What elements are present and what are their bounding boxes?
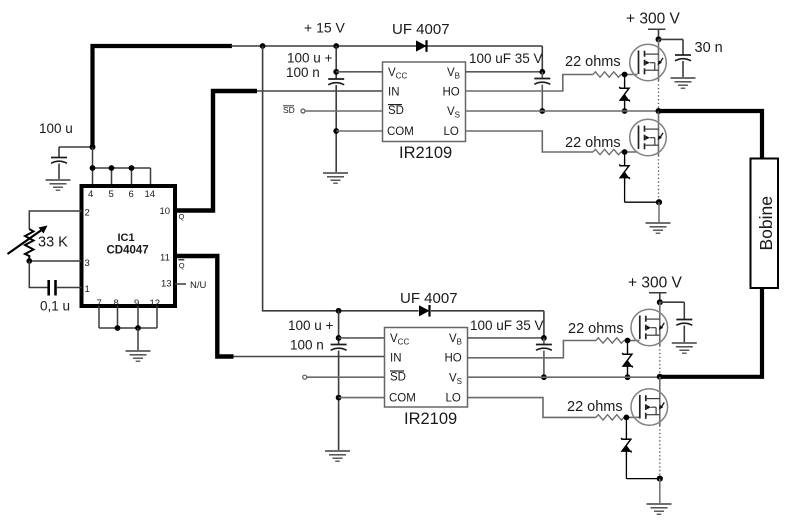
svg-text:UF 4007: UF 4007 bbox=[400, 290, 458, 307]
node: bootstrap Vs junction bottom bbox=[541, 374, 547, 380]
wire: drain Q3 bbox=[659, 302, 661, 345]
ground: bottom driver decoupling bbox=[325, 451, 350, 461]
svg-text:Q: Q bbox=[179, 212, 185, 221]
wire: IN pin line bbox=[257, 90, 382, 92]
svg-text:IN: IN bbox=[390, 353, 402, 365]
coil L1 Bobine box bbox=[751, 159, 779, 289]
svg-text:0,1 u: 0,1 u bbox=[40, 299, 70, 314]
potentiometer arrow bbox=[8, 229, 44, 254]
svg-text:CD4047: CD4047 bbox=[107, 245, 149, 257]
svg-text:N/U: N/U bbox=[190, 280, 207, 291]
svg-text:22 ohms: 22 ohms bbox=[565, 135, 621, 151]
wire: pin4 vertical from node to IC bbox=[92, 147, 94, 184]
resistor R5 22 ohms bbox=[596, 415, 624, 420]
wire: Vcc branch vertical bbox=[335, 46, 337, 79]
svg-text:COM: COM bbox=[387, 126, 414, 138]
wire: down to 0.1u cap bbox=[29, 261, 47, 288]
wire: Q output pin10 to top driver IN bbox=[175, 91, 257, 211]
transistor Q2 MOSFET bbox=[630, 119, 667, 156]
wire: IN pin line bottom bbox=[234, 356, 385, 358]
wire: Vb pin line bbox=[466, 71, 543, 73]
svg-text:IR2109: IR2109 bbox=[404, 410, 457, 428]
capacitor C2 0.1u bbox=[47, 280, 50, 296]
node: source Q4 / zener junction bbox=[657, 476, 663, 482]
wire: 0.1u cap to pin1 bbox=[57, 287, 82, 289]
ground: top bridge bbox=[646, 223, 671, 233]
wire: source Q4 dotted bbox=[659, 426, 661, 479]
potentiometer R1 33K zigzag bbox=[25, 229, 34, 261]
wire: HO pin line with jog bbox=[466, 75, 594, 92]
resistor R2 22 ohms bbox=[593, 72, 621, 77]
node: gate Q3 bbox=[625, 338, 631, 344]
node: source Q2 / zener junction bbox=[656, 199, 662, 205]
wire: Vcc branch vertical bottom bbox=[338, 311, 340, 344]
wire: rail to ground bbox=[137, 328, 139, 350]
diode D1 UF4007 bbox=[416, 45, 429, 47]
svg-text:22 ohms: 22 ohms bbox=[568, 321, 624, 337]
wire: pin7 stub bbox=[98, 306, 100, 328]
node: zener Q3 to Vs bbox=[625, 374, 631, 380]
wire: bootstrap corner down to Vb bbox=[541, 46, 543, 72]
node: COM junction bbox=[333, 128, 339, 134]
svg-text:UF 4007: UF 4007 bbox=[392, 21, 450, 38]
terminal: SD circle bbox=[301, 109, 305, 113]
ground: top driver decoupling bbox=[323, 173, 348, 183]
node: pin9 rail junction bbox=[135, 325, 141, 331]
node: junction +15V rail / vertical branch bbox=[260, 43, 266, 49]
wire: pin13 stub bbox=[175, 283, 186, 285]
IC U2 IR2109 box top bbox=[383, 62, 466, 142]
wire: Vs pin line bottom bbox=[468, 376, 660, 378]
svg-text:HO: HO bbox=[443, 87, 460, 99]
wire: Vcc pin line bbox=[336, 71, 382, 73]
transistor Q1 MOSFET bbox=[630, 44, 667, 81]
wire: top pin rail 4-5-6-14 bbox=[93, 167, 151, 169]
wire: pin12 stub bbox=[156, 306, 158, 328]
IC U1 CD4047 box bbox=[82, 186, 176, 306]
wire: source Q2 dotted bbox=[658, 156, 660, 203]
svg-text:Q: Q bbox=[179, 261, 185, 270]
node: pin4 rail junction bbox=[90, 165, 96, 171]
node: Vb junction bottom bbox=[541, 335, 547, 341]
node: pin8 rail junction bbox=[115, 325, 121, 331]
svg-text:5: 5 bbox=[109, 189, 114, 200]
svg-text:100 uF 35 V: 100 uF 35 V bbox=[470, 318, 544, 333]
wire: source Q1 dotted bbox=[658, 81, 660, 112]
node: gate Q2 bbox=[622, 149, 628, 155]
wire: Qbar output pin11 to bottom driver IN bbox=[175, 256, 234, 357]
diode D4 UF4007 bbox=[419, 305, 430, 317]
node: rail junction at Vcc branch bottom bbox=[336, 308, 342, 314]
zener D5 gate Q3 bbox=[627, 341, 629, 348]
svg-text:100 u +: 100 u + bbox=[287, 51, 333, 66]
wire: LO pin line with jog bottom bbox=[468, 398, 597, 418]
ground: 100u cap bbox=[46, 180, 71, 190]
node: +300V top bbox=[656, 36, 662, 42]
node: pin5 rail junction bbox=[109, 165, 115, 171]
ground: 30n bottom bbox=[672, 343, 697, 353]
node: Vb junction bbox=[539, 69, 545, 75]
svg-text:100 u: 100 u bbox=[39, 121, 73, 136]
wire: 30n branch bottom bbox=[660, 301, 685, 303]
zener D6 gate Q4 bbox=[625, 417, 627, 432]
svg-text:+ 300 V: + 300 V bbox=[626, 11, 681, 28]
wire: source Q3 dotted bbox=[659, 346, 661, 377]
svg-text:SD: SD bbox=[390, 372, 406, 384]
capacitor 30n bottom bbox=[676, 320, 692, 326]
zener D2 gate Q1 bbox=[624, 75, 626, 82]
svg-text:+ 300 V: + 300 V bbox=[628, 275, 683, 292]
svg-text:LO: LO bbox=[446, 393, 461, 405]
svg-text:2: 2 bbox=[85, 208, 90, 219]
capacitor 100u+100n top bbox=[328, 79, 344, 85]
node: pot bottom junction bbox=[26, 258, 32, 264]
wire: pin14 stub bbox=[150, 168, 152, 184]
node: half-bridge midpoint bottom bbox=[657, 374, 663, 380]
svg-text:22 ohms: 22 ohms bbox=[565, 54, 621, 70]
svg-text:+ 15 V: + 15 V bbox=[304, 20, 346, 36]
transistor Q3 MOSFET bbox=[631, 309, 668, 346]
wire: SD pin line bottom bbox=[307, 376, 384, 378]
node: bootstrap Vs junction bbox=[539, 108, 545, 114]
wire: to ground bottom bridge bbox=[659, 479, 661, 503]
ground: IC bbox=[126, 351, 151, 361]
transistor Q4 MOSFET bbox=[631, 389, 668, 426]
wire: pin8 stub bbox=[117, 306, 119, 328]
IC U3 IR2109 box bottom bbox=[385, 328, 468, 408]
svg-text:SD: SD bbox=[283, 105, 295, 115]
node: Vcc junction bottom bbox=[336, 335, 342, 341]
svg-text:30 n: 30 n bbox=[695, 40, 723, 56]
wire: bootstrap corner down to Vb bottom bbox=[543, 311, 545, 338]
supply terminal bar bottom bbox=[649, 292, 667, 294]
wire: thin +15V rail continuing right to diode bbox=[231, 45, 416, 47]
wire: Vcc pin line bottom bbox=[339, 337, 384, 339]
wire: drain Q4 bbox=[659, 377, 661, 426]
svg-text:1: 1 bbox=[85, 284, 90, 295]
node: +300V bottom bbox=[657, 299, 663, 305]
svg-text:100 uF 35 V: 100 uF 35 V bbox=[469, 51, 543, 66]
wire: SD pin line bbox=[305, 110, 382, 112]
wire: midpoint to Bobine top bbox=[659, 111, 763, 159]
wire: to ground top bridge bbox=[658, 202, 660, 222]
wire: pin3 to pot bottom bbox=[29, 260, 81, 262]
capacitor C 100u bbox=[58, 147, 60, 157]
node: COM junction bottom bbox=[336, 395, 342, 401]
svg-text:LO: LO bbox=[444, 126, 459, 138]
ground: 30n bbox=[671, 78, 696, 88]
wire: Vb pin line bottom bbox=[468, 337, 544, 339]
node: 100u junction bbox=[90, 144, 96, 150]
node: Vcc junction bbox=[333, 69, 339, 75]
node: gate Q4 bbox=[624, 415, 630, 421]
node: rail junction at Vcc branch bbox=[333, 43, 339, 49]
svg-text:33 K: 33 K bbox=[38, 235, 68, 251]
svg-text:100 n: 100 n bbox=[286, 65, 320, 80]
capacitor 30n bbox=[675, 55, 691, 61]
wire: +15V feed from 100u node up and right bbox=[93, 46, 233, 147]
node: half-bridge midpoint top bbox=[656, 108, 662, 114]
svg-text:14: 14 bbox=[145, 189, 156, 200]
capacitor bootstrap bottom 100uF bbox=[543, 338, 545, 344]
resistor R3 22 ohms bbox=[593, 149, 621, 154]
wire: 30n branch bbox=[659, 38, 684, 40]
svg-text:10: 10 bbox=[160, 206, 171, 217]
svg-text:6: 6 bbox=[129, 189, 134, 200]
wire: HO pin line with jog bottom bbox=[468, 341, 597, 358]
supply terminal bar bbox=[648, 28, 666, 30]
svg-text:100 u +: 100 u + bbox=[288, 318, 334, 333]
svg-text:4: 4 bbox=[88, 189, 93, 200]
capacitor 100u wire from node bbox=[59, 146, 93, 148]
svg-text:COM: COM bbox=[389, 393, 416, 405]
svg-text:100 n: 100 n bbox=[290, 338, 324, 353]
node: gate Q1 bbox=[622, 72, 628, 78]
wire: LO pin line with jog bbox=[466, 131, 594, 152]
wire: +15V vertical branch down to lower driver bbox=[263, 46, 419, 311]
svg-text:11: 11 bbox=[160, 253, 170, 264]
svg-text:22 ohms: 22 ohms bbox=[567, 399, 623, 415]
zener D3 gate Q2 bbox=[624, 152, 626, 159]
wire: bottom pin rail bbox=[99, 327, 157, 329]
terminal: SD circle bottom bbox=[303, 375, 307, 379]
svg-text:Bobine: Bobine bbox=[756, 196, 776, 251]
wire: COM pin line bottom bbox=[339, 397, 384, 399]
wire: pin6 stub bbox=[131, 168, 133, 184]
svg-text:IN: IN bbox=[388, 87, 400, 99]
svg-text:IR2109: IR2109 bbox=[399, 144, 452, 162]
node: pin6 rail junction bbox=[129, 165, 135, 171]
wire: Bobine bottom to lower midpoint bbox=[660, 288, 762, 377]
capacitor 100u+100n bottom bbox=[331, 345, 347, 351]
svg-text:HO: HO bbox=[445, 353, 462, 365]
wire: pin2 to potentiometer bbox=[29, 211, 81, 229]
wire: COM pin line bbox=[336, 130, 382, 132]
svg-text:13: 13 bbox=[161, 279, 172, 290]
capacitor bootstrap top 100uF bbox=[541, 72, 543, 78]
wire: drain Q2 bbox=[658, 111, 660, 156]
node: zener Q1 to Vs bbox=[622, 108, 628, 114]
svg-text:12: 12 bbox=[150, 298, 161, 309]
wire: pin9 stub bbox=[137, 306, 139, 328]
wire: drain Q1 bbox=[658, 39, 660, 80]
wire: pin5 stub bbox=[111, 168, 113, 184]
ground: bottom bridge bbox=[647, 504, 672, 514]
svg-text:IC1: IC1 bbox=[118, 232, 135, 244]
resistor R4 22 ohms bbox=[596, 338, 624, 343]
svg-text:SD: SD bbox=[388, 105, 404, 117]
wire: Vs pin line bbox=[466, 110, 659, 112]
svg-text:3: 3 bbox=[85, 258, 90, 269]
